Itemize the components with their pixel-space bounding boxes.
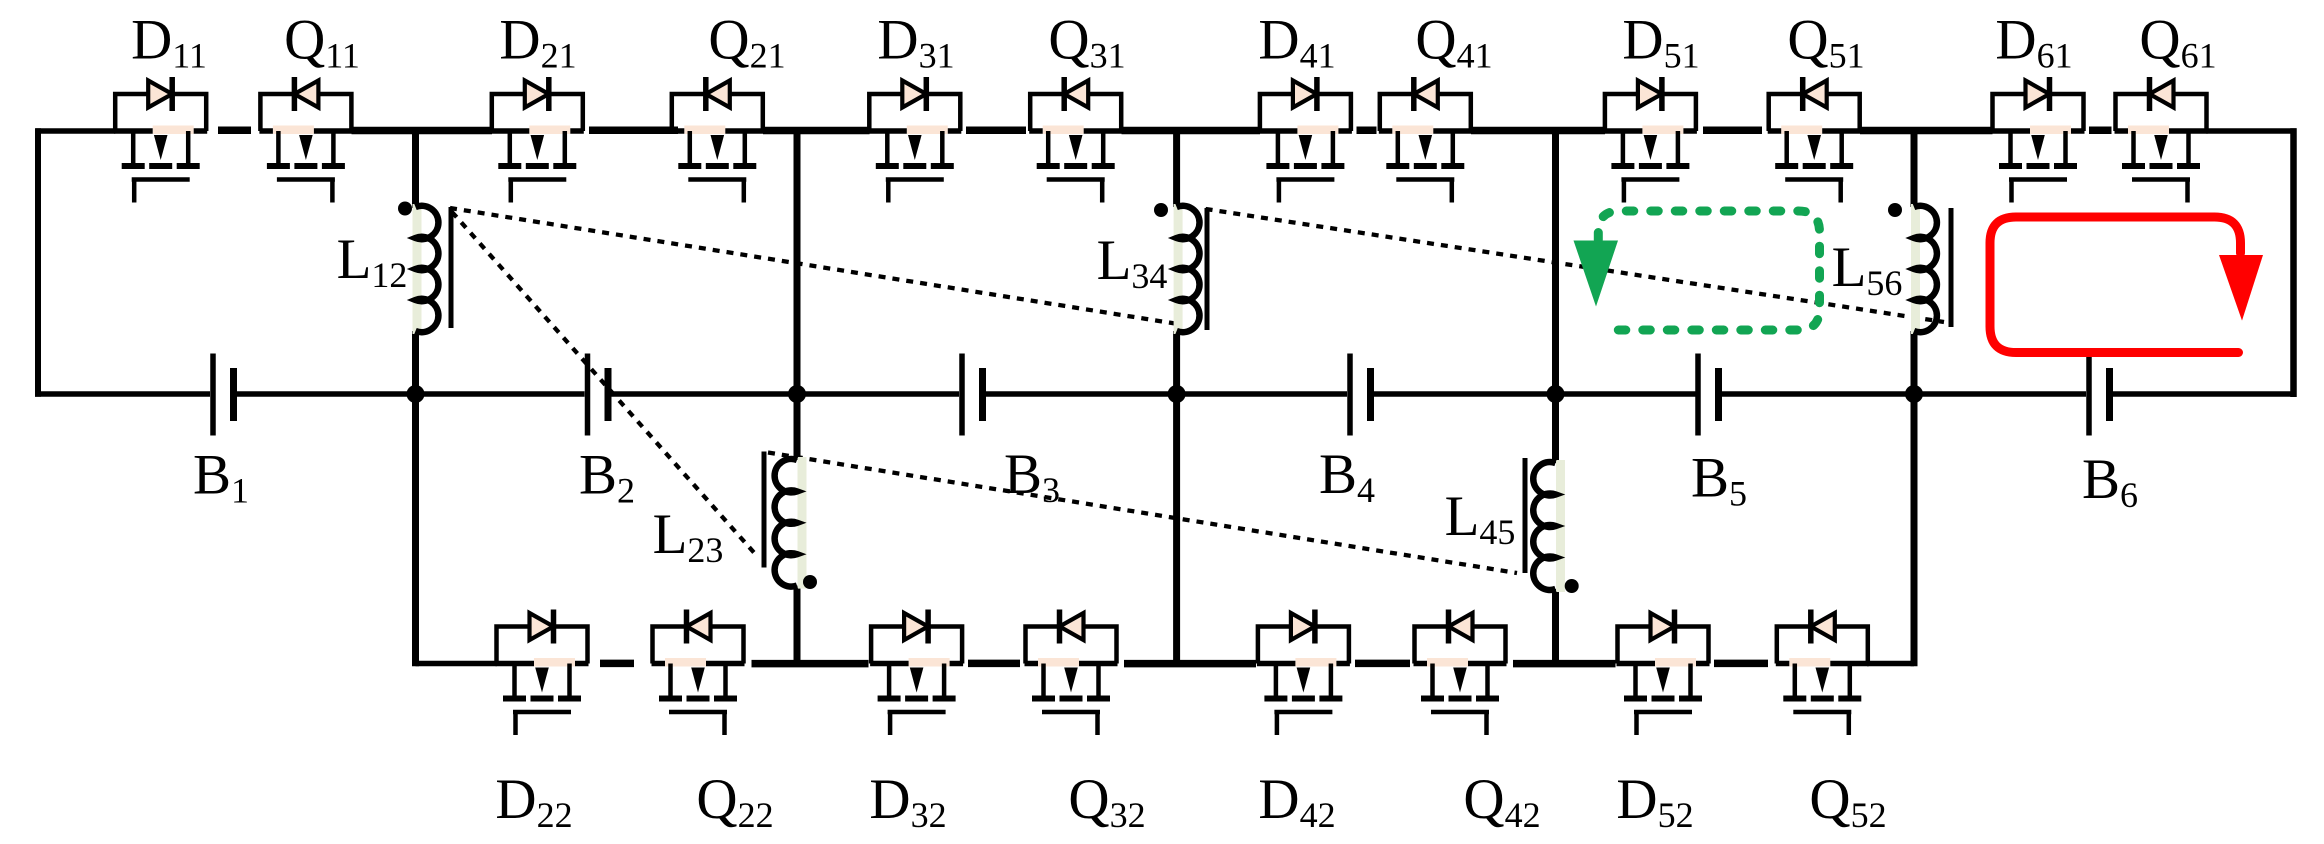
wire column node 2 (mid bus to L23): [794, 394, 801, 460]
transistor D42 (MOSFET with series body diode): [1257, 610, 1350, 736]
transistor Q32 (MOSFET with series body diode): [1025, 610, 1118, 736]
label Q31: [1048, 9, 1125, 76]
transistor D11 (MOSFET with series body diode): [114, 77, 207, 203]
label Q22: [696, 768, 773, 835]
label B3: [1004, 443, 1060, 510]
label L23: [653, 503, 724, 570]
transistor Q61 (MOSFET with series body diode): [2115, 77, 2208, 203]
wire column node 1 bottom (mid to bottom bus): [412, 394, 419, 666]
battery B6: [2089, 354, 2110, 436]
transistor D51 (MOSFET with series body diode): [1604, 77, 1697, 203]
transistor D31 (MOSFET with series body diode): [868, 77, 961, 203]
label Q61: [2139, 9, 2216, 76]
junction node 4 on battery bus: [1547, 385, 1565, 403]
inductor L12 core bar: [449, 207, 454, 328]
inductor L23 core bar: [762, 452, 767, 568]
inductor L23 winding: [775, 457, 807, 589]
label D11: [131, 9, 207, 76]
transistor Q21 (MOSFET with series body diode): [671, 77, 764, 203]
label D21: [499, 9, 576, 76]
transistor Q51 (MOSFET with series body diode): [1768, 77, 1861, 203]
label D51: [1622, 9, 1699, 76]
inductor L12 polarity dot: [398, 202, 412, 216]
inductor L23 polarity dot: [803, 575, 817, 589]
battery B2: [588, 354, 609, 436]
wire right outer vertical (B6 loop): [2290, 128, 2297, 397]
transistor D52 (MOSFET with series body diode): [1617, 610, 1710, 736]
transistor D21 (MOSFET with series body diode): [491, 77, 584, 203]
transistor Q41 (MOSFET with series body diode): [1379, 77, 1472, 203]
wire column node 1 (L12 to mid bus): [412, 331, 419, 394]
transistor Q22 (MOSFET with series body diode): [652, 610, 745, 736]
transistor D41 (MOSFET with series body diode): [1259, 77, 1352, 203]
coupling dashed line L34-L56: [1206, 209, 1944, 322]
inductor L56 polarity dot: [1888, 203, 1902, 217]
wire middle battery bus: [35, 391, 2297, 397]
transistor Q31 (MOSFET with series body diode): [1029, 77, 1122, 203]
label B1: [193, 444, 249, 511]
wire column node 3 (L34 to mid bus): [1173, 331, 1180, 394]
green current-direction arrow: [1574, 241, 1619, 307]
red current-direction arrow: [2219, 255, 2263, 321]
red solid balancing-current loop in cell 6: [1990, 217, 2241, 353]
label Q41: [1415, 9, 1492, 76]
transistor Q42 (MOSFET with series body diode): [1414, 610, 1507, 736]
label B5: [1691, 447, 1747, 514]
label D61: [1995, 9, 2072, 76]
wire column node 4 (mid bus to L45): [1552, 394, 1559, 463]
wire top bus: [36, 128, 2297, 134]
label L56: [1832, 236, 1903, 303]
label D42: [1258, 768, 1335, 835]
wire column node 3 top (bus to L34): [1173, 131, 1180, 207]
label Q32: [1068, 768, 1145, 835]
inductor L12 winding: [413, 204, 439, 334]
transistor D61 (MOSFET with series body diode): [1992, 77, 2085, 203]
label Q52: [1809, 768, 1886, 835]
wire bottom bus links between switch pairs: [600, 660, 1768, 668]
battery B3: [962, 354, 983, 436]
inductor L34 core bar: [1205, 208, 1210, 330]
inductor L45 winding: [1533, 460, 1565, 592]
wire column node 2 bottom (L23 to bottom bus): [794, 586, 801, 664]
label L12: [337, 228, 408, 295]
junction node 5 on battery bus: [1905, 385, 1923, 403]
wire column node 1 top (bus to L12): [412, 131, 419, 208]
transistor D22 (MOSFET with series body diode): [496, 610, 589, 736]
wire column node 4 top (top bus to mid bus): [1552, 131, 1559, 394]
coupling dashed line L12-L34: [450, 208, 1178, 324]
label Q51: [1787, 9, 1864, 76]
transistor Q52 (MOSFET with series body diode): [1776, 610, 1869, 736]
inductor L34 winding: [1174, 204, 1200, 334]
junction node 3 on battery bus: [1168, 385, 1186, 403]
label D31: [877, 9, 954, 76]
wire column node 5 top (bus to L56): [1911, 131, 1918, 207]
transistor Q11 (MOSFET with series body diode): [259, 77, 352, 203]
wire column node 5 bottom (mid to bottom bus): [1911, 394, 1918, 666]
wire column node 2 top (top bus to mid bus): [794, 131, 801, 394]
junction node 2 on battery bus: [788, 385, 806, 403]
battery B4: [1350, 354, 1371, 436]
label L45: [1445, 485, 1516, 552]
wire left outer vertical (B1 loop): [35, 128, 41, 396]
transistor D32 (MOSFET with series body diode): [870, 610, 963, 736]
coupling dashed line L23-L45: [768, 453, 1517, 574]
battery B1: [213, 354, 234, 436]
label Q11: [284, 9, 360, 76]
inductor L45 core bar: [1523, 458, 1528, 573]
label Q42: [1463, 768, 1540, 835]
label B2: [579, 444, 635, 511]
junction node 1 on battery bus: [407, 385, 425, 403]
wire column node 5 (L56 to mid bus): [1911, 331, 1918, 394]
wire top bus links between switch pairs: [218, 127, 2112, 135]
label B6: [2082, 448, 2138, 515]
inductor L45 polarity dot: [1565, 579, 1579, 593]
label D32: [869, 768, 946, 835]
inductor L56 winding: [1911, 204, 1937, 334]
battery B5: [1698, 354, 1719, 436]
inductor L34 polarity dot: [1154, 203, 1168, 217]
wire bottom bus: [416, 661, 1915, 667]
wire column node 4 bottom (L45 to bottom bus): [1552, 589, 1559, 664]
wire column node 3 bottom (mid to bottom bus): [1173, 394, 1180, 664]
green dashed balancing-current loop in cell 5: [1598, 211, 1819, 330]
label D52: [1616, 768, 1693, 835]
coupling dashed line L12-L23: [452, 212, 757, 556]
label Q21: [708, 9, 785, 76]
label L34: [1097, 229, 1168, 296]
label D22: [495, 768, 572, 835]
label D41: [1258, 9, 1335, 76]
inductor L56 core bar: [1949, 208, 1954, 327]
label B4: [1319, 443, 1375, 510]
